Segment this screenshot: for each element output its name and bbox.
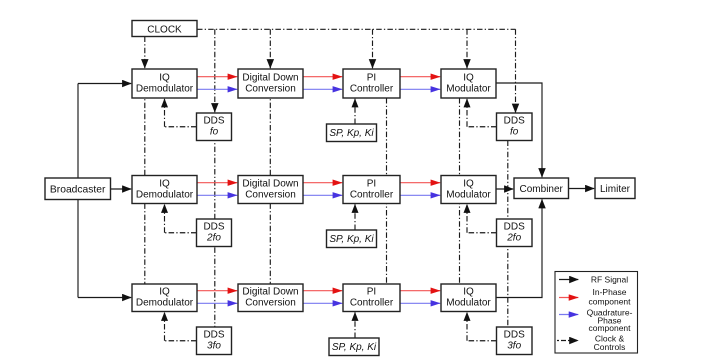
legend Quadrature-Phase component — [559, 307, 633, 333]
block IQ Demodulator 3 — [132, 284, 197, 312]
wire IQ Modulator 2 to Combiner left — [496, 188, 513, 190]
wire quadrature PI Controller 2 to IQ Modulator 2 — [400, 194, 440, 196]
wire in-phase IQ Demodulator 2 to DDC 2 — [197, 182, 237, 184]
svg-text:Combiner: Combiner — [520, 184, 564, 195]
svg-text:SP, Kp, Ki: SP, Kp, Ki — [329, 234, 374, 245]
svg-text:DDS: DDS — [203, 116, 224, 127]
svg-text:DDS: DDS — [504, 116, 525, 127]
wire in-phase IQ Demodulator 1 to DDC 1 — [197, 76, 237, 78]
svg-text:3fo: 3fo — [207, 341, 221, 352]
wire quadrature PI Controller 3 to IQ Modulator 3 — [400, 302, 440, 304]
svg-text:IQ: IQ — [159, 178, 170, 189]
svg-text:component: component — [588, 323, 631, 333]
legend box — [555, 272, 638, 354]
svg-text:Controller: Controller — [350, 189, 394, 200]
svg-text:2fo: 2fo — [206, 233, 221, 244]
svg-text:Limiter: Limiter — [600, 184, 631, 195]
legend In-Phase component — [559, 287, 631, 307]
wire in-phase DDC 3 to PI Controller 3 — [303, 290, 342, 292]
block DDS 2fo right — [497, 219, 533, 247]
wire broadcaster to IQ Demodulator 1 — [78, 83, 131, 85]
block Limiter — [595, 178, 635, 199]
label SP Kp Ki 1 — [327, 124, 377, 142]
block DDS fo right — [497, 113, 533, 141]
svg-text:2fo: 2fo — [506, 233, 521, 244]
wire SP Kp Ki to PI Controller 3 — [354, 312, 356, 338]
block DDS 2fo left — [197, 219, 232, 247]
block Digital Down Conversion 1 — [238, 69, 303, 98]
svg-text:Broadcaster: Broadcaster — [50, 184, 106, 195]
wire quadrature IQ Demodulator 2 to DDC 2 — [197, 194, 237, 196]
svg-text:IQ: IQ — [159, 72, 170, 83]
svg-text:RF Signal: RF Signal — [591, 275, 628, 285]
svg-text:PI: PI — [367, 286, 376, 297]
svg-text:Conversion: Conversion — [245, 189, 296, 200]
block PI Controller 3 — [343, 284, 400, 312]
block IQ Demodulator 2 — [132, 176, 197, 204]
svg-text:In-Phase: In-Phase — [592, 287, 626, 297]
svg-text:Digital Down: Digital Down — [242, 72, 298, 83]
svg-text:Controller: Controller — [350, 83, 394, 94]
wire clock drop to Digital Down Conversion 1 with arrow — [269, 29, 271, 68]
wire DDS feedback to IQ Demodulator 3 — [165, 312, 197, 340]
wire IQ Modulator 3 to Combiner bottom — [496, 199, 542, 297]
wire DDS feedback to IQ Modulator 2 — [467, 204, 497, 232]
svg-text:IQ: IQ — [159, 286, 170, 297]
label SP Kp Ki 3 — [329, 338, 379, 356]
wire IQ Modulator 1 to Combiner top — [496, 83, 542, 177]
svg-text:DDS: DDS — [504, 330, 525, 341]
svg-text:Demodulator: Demodulator — [136, 83, 194, 94]
block Digital Down Conversion 2 — [238, 176, 303, 204]
wire SP Kp Ki to PI Controller 1 — [354, 99, 356, 124]
wire in-phase PI Controller 3 to IQ Modulator 3 — [400, 290, 440, 292]
svg-text:SP, Kp, Ki: SP, Kp, Ki — [329, 128, 374, 139]
wire clock drop to IQ Modulator 1 with arrow — [466, 29, 468, 68]
wire clock drop to PI Controller 1 with arrow — [372, 29, 374, 68]
svg-text:DDS: DDS — [504, 222, 525, 233]
svg-text:Digital Down: Digital Down — [242, 178, 298, 189]
svg-text:Modulator: Modulator — [446, 189, 491, 200]
svg-text:IQ: IQ — [463, 178, 474, 189]
svg-text:Modulator: Modulator — [446, 297, 491, 308]
wire Combiner to Limiter — [569, 188, 595, 190]
wire quadrature DDC 1 to PI Controller 1 — [303, 88, 342, 90]
wire clock pass-through DDS left column — [214, 113, 216, 327]
wire clock drop to DDS fo right with arrow — [515, 29, 517, 112]
block PI Controller 1 — [343, 69, 400, 98]
wire clock drop to DDS fo with arrow — [214, 29, 216, 112]
svg-text:component: component — [588, 297, 631, 307]
svg-text:PI: PI — [367, 72, 376, 83]
wire DDS feedback to IQ Modulator 1 — [467, 99, 497, 127]
wire clock pass-through DDS right column — [507, 141, 509, 327]
clock CLOCK — [132, 21, 197, 37]
svg-text:Demodulator: Demodulator — [136, 189, 194, 200]
svg-text:Controller: Controller — [350, 297, 394, 308]
wire SP Kp Ki to PI Controller 2 — [354, 204, 356, 230]
wire quadrature DDC 2 to PI Controller 2 — [303, 194, 342, 196]
svg-text:Digital Down: Digital Down — [242, 286, 298, 297]
svg-text:PI: PI — [367, 178, 376, 189]
wire clock pass-through IQ Demodulator column — [144, 69, 146, 284]
svg-text:IQ: IQ — [463, 72, 474, 83]
wire quadrature PI Controller 1 to IQ Modulator 1 — [400, 88, 440, 90]
wire in-phase DDC 1 to PI Controller 1 — [303, 76, 342, 78]
svg-text:SP, Kp, Ki: SP, Kp, Ki — [332, 342, 377, 353]
svg-text:fo: fo — [510, 127, 519, 138]
block DDS fo left — [197, 113, 232, 141]
block DDS 3fo left — [197, 327, 232, 355]
wire quadrature IQ Demodulator 1 to DDC 1 — [197, 88, 237, 90]
wire clock pass-through PI Controller column — [386, 98, 388, 284]
block IQ Demodulator 1 — [132, 69, 197, 98]
svg-text:Modulator: Modulator — [446, 83, 491, 94]
svg-text:3fo: 3fo — [507, 341, 521, 352]
svg-text:Conversion: Conversion — [245, 83, 296, 94]
wire DDS feedback to IQ Modulator 3 — [467, 312, 497, 340]
block IQ Modulator 1 — [441, 69, 496, 98]
svg-text:Conversion: Conversion — [245, 297, 296, 308]
svg-text:Controls: Controls — [594, 342, 626, 352]
legend RF Signal — [559, 275, 628, 285]
block Combiner — [514, 178, 569, 199]
wire clock bus horizontal — [197, 28, 516, 30]
wire in-phase IQ Demodulator 3 to DDC 3 — [197, 290, 237, 292]
block DDS 3fo right — [497, 327, 533, 355]
wire broadcaster branch vertical — [77, 84, 79, 298]
svg-text:CLOCK: CLOCK — [147, 24, 182, 35]
svg-text:DDS: DDS — [203, 330, 224, 341]
wire in-phase PI Controller 1 to IQ Modulator 1 — [400, 76, 440, 78]
svg-text:IQ: IQ — [463, 286, 474, 297]
block Digital Down Conversion 3 — [238, 284, 303, 312]
label SP Kp Ki 2 — [327, 230, 377, 248]
block IQ Modulator 2 — [441, 176, 496, 204]
wire DDS feedback to IQ Demodulator 1 — [165, 99, 197, 127]
wire DDS feedback to IQ Demodulator 2 — [165, 204, 197, 232]
wire broadcaster to IQ Demodulator 2 — [111, 188, 132, 190]
wire quadrature IQ Demodulator 3 to DDC 3 — [197, 302, 237, 304]
wire clock drop to IQ Demodulator 1 with arrow — [144, 37, 146, 69]
wire in-phase DDC 2 to PI Controller 2 — [303, 182, 342, 184]
wire broadcaster to IQ Demodulator 3 — [78, 297, 131, 299]
svg-text:fo: fo — [210, 127, 219, 138]
block PI Controller 2 — [343, 176, 400, 204]
svg-text:DDS: DDS — [203, 222, 224, 233]
block IQ Modulator 3 — [441, 284, 496, 312]
wire in-phase PI Controller 2 to IQ Modulator 2 — [400, 182, 440, 184]
wire clock pass-through Digital Down Conversion column — [269, 69, 271, 284]
legend Clock and Controls — [557, 334, 625, 352]
source Broadcaster — [45, 178, 111, 200]
wire clock pass-through IQ Modulator column — [459, 98, 461, 284]
svg-text:Demodulator: Demodulator — [136, 297, 194, 308]
wire quadrature DDC 3 to PI Controller 3 — [303, 302, 342, 304]
